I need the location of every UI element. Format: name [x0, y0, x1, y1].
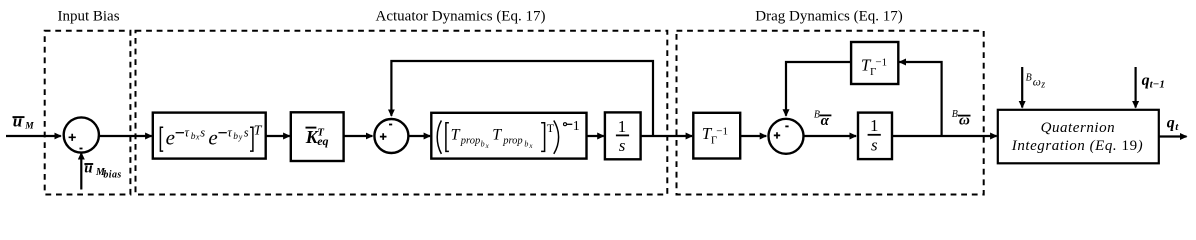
svg-text:ω: ω	[1033, 77, 1041, 89]
svg-text:τ: τ	[185, 126, 190, 140]
svg-text:b: b	[481, 139, 485, 148]
block: integrator 1/s (drag)	[858, 113, 892, 160]
block: K_eq gain	[291, 112, 344, 161]
svg-text:b: b	[233, 132, 238, 142]
svg-text:y: y	[238, 133, 243, 142]
svg-text:e: e	[208, 126, 217, 150]
svg-text:1: 1	[618, 117, 627, 136]
svg-text:e: e	[166, 126, 175, 150]
wire: delay block to K_eq block	[266, 135, 290, 137]
label: S3 minus sign	[785, 125, 788, 127]
svg-text:−1: −1	[716, 125, 728, 137]
svg-text:x: x	[195, 133, 200, 142]
wire: output q_t arrow	[1159, 135, 1187, 137]
summing junction S2	[374, 119, 408, 153]
dashed box: Input Bias	[45, 31, 131, 195]
label: S2 minus sign	[389, 124, 392, 126]
wire: S3 to integrator 1/s (drag)	[804, 135, 857, 137]
svg-text:q: q	[1167, 115, 1175, 132]
wire: integrator output across boundary to T_Gamma block	[641, 135, 693, 137]
wire: input u_M into summing junction S1	[6, 135, 61, 137]
svg-text:Actuator Dynamics (Eq. 17): Actuator Dynamics (Eq. 17)	[376, 9, 546, 25]
svg-text:s: s	[871, 135, 878, 154]
svg-text:1: 1	[573, 119, 580, 134]
svg-text:T: T	[492, 127, 502, 144]
label: B_omega_z	[1026, 73, 1046, 91]
svg-text:Input Bias: Input Bias	[57, 9, 119, 25]
svg-text:prop: prop	[502, 135, 522, 146]
wire: Tprop block to integrator 1/s	[587, 135, 604, 137]
svg-text:t−1: t−1	[1150, 78, 1165, 90]
svg-text:z: z	[1040, 80, 1045, 91]
svg-text:T: T	[254, 123, 263, 138]
label: B_alpha_bar node	[814, 110, 832, 130]
block: transport delay [e^-tau_bx_s e^-tau_by_s]^T	[153, 113, 266, 159]
block: integrator 1/s (actuator)	[605, 112, 641, 159]
svg-text:u: u	[13, 112, 22, 131]
svg-text:t: t	[1175, 121, 1179, 133]
svg-text:M: M	[24, 122, 34, 132]
label: u_M_bias	[84, 161, 121, 181]
block: Quaternion Integration	[998, 110, 1159, 164]
svg-text:prop: prop	[460, 135, 480, 146]
block: ([Tprop_bx Tprop_bx]^T)^(o-1)	[431, 113, 586, 159]
svg-text:q: q	[1142, 72, 1150, 89]
svg-text:Drag Dynamics (Eq. 17): Drag Dynamics (Eq. 17)	[755, 9, 902, 25]
block: T_Gamma^-1 (drag input)	[693, 113, 740, 159]
block: T_Gamma^-1 (feedback, top)	[851, 42, 898, 84]
label: S1 minus sign	[80, 148, 83, 150]
label: B_omega_bar node	[952, 109, 971, 128]
svg-text:s: s	[244, 126, 249, 140]
wire: B_omega_z input arrow down into Quaternion block	[1021, 67, 1023, 108]
summing junction S3	[769, 119, 804, 154]
wire: q_t-1 input arrow down into Quaternion block	[1134, 67, 1136, 108]
svg-text:−1: −1	[875, 56, 887, 68]
label: S3 plus sign	[774, 132, 780, 138]
svg-text:B: B	[1026, 73, 1032, 84]
svg-text:B: B	[814, 110, 820, 121]
label: S2 plus sign	[380, 133, 387, 140]
wire: T_Gamma to summing junction S3	[740, 135, 766, 137]
svg-text:T: T	[547, 121, 555, 135]
svg-text:τ: τ	[227, 126, 232, 140]
svg-text:1: 1	[870, 116, 879, 135]
label: q_t-1	[1142, 72, 1165, 90]
svg-text:T: T	[451, 127, 461, 144]
wire: actuator feedback from after integrator to S2	[391, 61, 653, 136]
dashed box: Drag Dynamics	[677, 31, 984, 195]
svg-text:Integration (Eq. 19): Integration (Eq. 19)	[1011, 138, 1143, 154]
svg-text:ω: ω	[959, 112, 970, 128]
label: u_M bar input	[13, 112, 35, 132]
wire: K_eq to summing junction S2	[344, 135, 373, 137]
summing junction S1	[64, 117, 99, 152]
wire: drag integrator output to Quaternion Integration block	[892, 135, 997, 137]
svg-text:s: s	[200, 126, 205, 140]
svg-text:s: s	[619, 136, 626, 155]
svg-text:B: B	[952, 109, 958, 120]
svg-text:eq: eq	[317, 134, 328, 148]
label: S1 plus sign	[69, 134, 76, 141]
dashed box: Actuator Dynamics	[136, 31, 668, 195]
wire: S2 to Tprop block	[408, 135, 430, 137]
svg-text:α: α	[821, 113, 830, 129]
svg-text:bias: bias	[103, 169, 121, 180]
svg-text:Quaternion: Quaternion	[1041, 120, 1116, 136]
svg-text:u: u	[84, 161, 92, 177]
wire: top T_Gamma block output down into S3	[786, 62, 851, 116]
wire: bias input arrow up into S1	[80, 153, 82, 190]
svg-text:b: b	[524, 139, 528, 148]
label: q_t output	[1167, 115, 1180, 134]
wire: drag feedback junction up to top T_Gamma block	[900, 62, 942, 136]
wire: S1 to delay block	[98, 135, 152, 137]
